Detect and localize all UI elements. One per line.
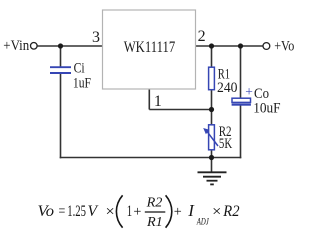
svg-text:R1: R1 xyxy=(146,215,163,230)
svg-text:+Vo: +Vo xyxy=(274,38,294,54)
svg-text:I: I xyxy=(187,201,195,220)
svg-text:+: + xyxy=(245,84,253,99)
svg-text:1: 1 xyxy=(127,203,132,220)
svg-text:240: 240 xyxy=(217,80,238,96)
svg-text:WK11117: WK11117 xyxy=(124,39,176,56)
svg-text:+Vin: +Vin xyxy=(3,38,29,54)
svg-text:Vo: Vo xyxy=(38,203,55,220)
svg-text:=: = xyxy=(59,203,66,220)
svg-text:1uF: 1uF xyxy=(73,76,91,92)
svg-text:5K: 5K xyxy=(219,136,232,152)
svg-text:Ci: Ci xyxy=(74,61,85,77)
svg-text:10uF: 10uF xyxy=(253,100,280,116)
svg-text:R2: R2 xyxy=(146,196,163,211)
svg-text:2: 2 xyxy=(198,28,206,45)
svg-text:ADJ: ADJ xyxy=(196,218,209,228)
svg-text:R2: R2 xyxy=(222,203,239,220)
svg-text:3: 3 xyxy=(92,29,100,46)
svg-text:1.25: 1.25 xyxy=(67,203,86,220)
svg-text:×: × xyxy=(106,204,115,220)
svg-text:+: + xyxy=(133,204,141,220)
svg-text:+: + xyxy=(174,204,182,220)
svg-text:V: V xyxy=(88,203,100,220)
svg-text:×: × xyxy=(212,204,221,220)
svg-text:1: 1 xyxy=(154,93,162,110)
